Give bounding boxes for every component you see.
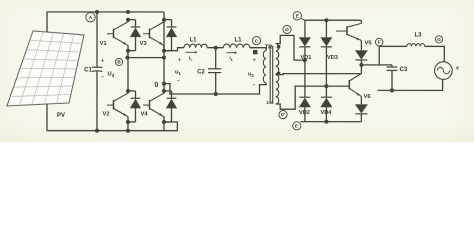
svg-text:C2: C2 [197,69,205,75]
svg-text:L3: L3 [415,33,423,39]
svg-text:−: − [177,78,180,84]
svg-text:−: − [101,74,104,80]
svg-text:V5: V5 [365,41,373,47]
svg-text:+: + [178,57,181,63]
svg-text:VD1: VD1 [301,55,312,61]
svg-text:F: F [378,40,381,46]
svg-text:iL: iL [230,56,234,62]
svg-text:+: + [101,58,104,64]
svg-text:L1: L1 [235,37,243,43]
svg-text:1:n: 1:n [266,100,273,106]
svg-text:VD3: VD3 [327,55,338,61]
svg-text:iL: iL [189,55,193,61]
svg-text:D′: D′ [281,112,285,117]
svg-text:V1: V1 [99,41,107,47]
svg-text:+: + [253,57,256,63]
svg-text:u2: u2 [248,72,255,78]
svg-text:E′: E′ [295,123,299,128]
svg-text:VD4: VD4 [320,110,332,116]
svg-text:A: A [89,15,93,21]
svg-text:VD2: VD2 [299,110,310,116]
svg-text:PV: PV [57,113,65,119]
svg-text:TR: TR [265,44,272,50]
svg-text:−: − [253,82,256,88]
svg-text:C3: C3 [399,67,407,73]
svg-text:Ud: Ud [107,71,114,77]
svg-text:V4: V4 [140,111,148,117]
svg-text:C1: C1 [84,67,92,73]
svg-text:V3: V3 [139,41,147,47]
svg-text:u1: u1 [175,69,182,75]
svg-text:e: e [456,66,459,72]
svg-text:C: C [255,38,259,44]
svg-text:G: G [437,37,441,43]
svg-text:D: D [285,27,289,33]
svg-text:V6: V6 [363,94,371,100]
svg-text:V2: V2 [102,111,109,117]
svg-text:0: 0 [155,82,159,89]
svg-text:L1: L1 [190,37,198,43]
svg-text:E: E [296,14,300,20]
svg-text:B: B [117,60,121,66]
